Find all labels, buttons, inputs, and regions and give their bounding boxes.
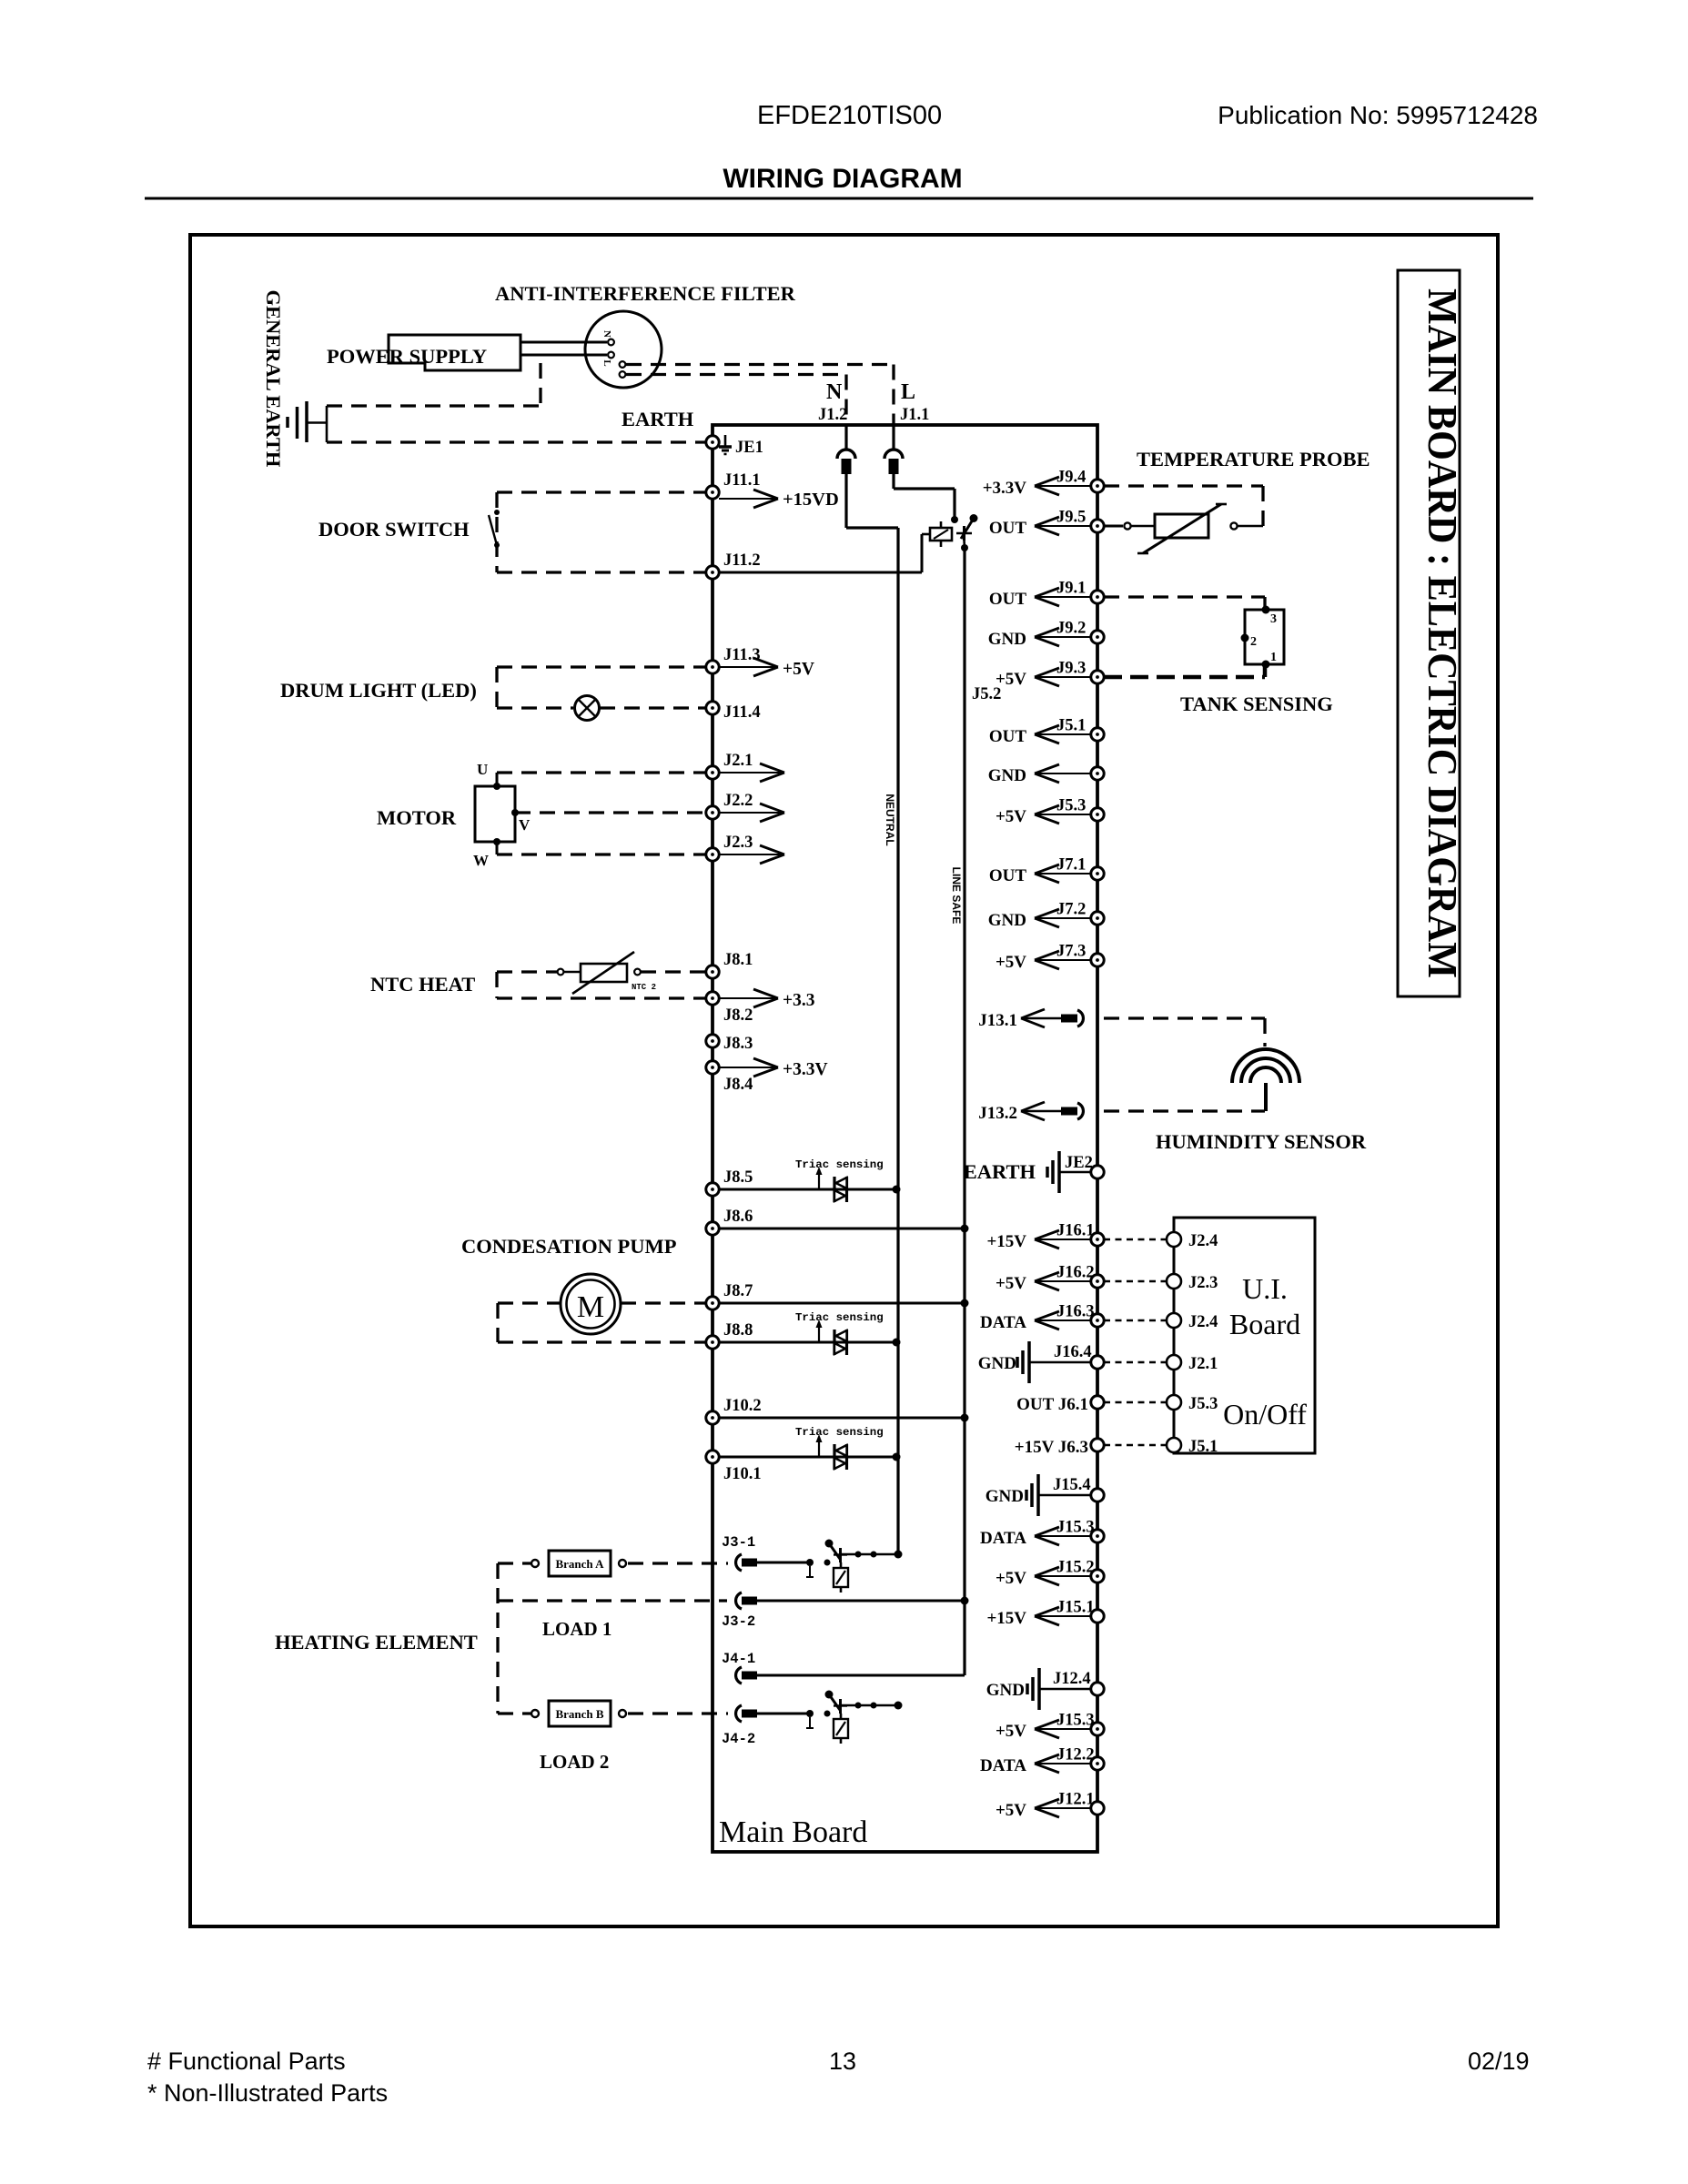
svg-text:OUT: OUT — [989, 519, 1027, 538]
svg-text:J11.4: J11.4 — [723, 703, 761, 722]
svg-text:02/19: 02/19 — [1468, 2047, 1530, 2075]
svg-text:WIRING DIAGRAM: WIRING DIAGRAM — [723, 164, 962, 194]
svg-text:LOAD 2: LOAD 2 — [540, 1751, 609, 1773]
svg-text:Publication No: 5995712428: Publication No: 5995712428 — [1218, 101, 1538, 129]
svg-text:CONDESATION PUMP: CONDESATION PUMP — [461, 1235, 677, 1258]
svg-text:OUT: OUT — [989, 590, 1027, 609]
svg-text:NTC 2: NTC 2 — [632, 983, 656, 992]
svg-text:LOAD 1: LOAD 1 — [542, 1618, 612, 1640]
svg-text:DATA: DATA — [980, 1756, 1026, 1775]
svg-text:ANTI-INTERFERENCE FILTER: ANTI-INTERFERENCE FILTER — [495, 282, 796, 305]
svg-text:J10.2: J10.2 — [723, 1397, 762, 1415]
svg-text:V: V — [519, 816, 531, 834]
svg-text:J12.4: J12.4 — [1053, 1670, 1091, 1688]
svg-text:M: M — [577, 1290, 604, 1324]
svg-text:Triac sensing: Triac sensing — [795, 1426, 884, 1439]
svg-text:J1.2: J1.2 — [818, 406, 847, 424]
svg-text:J11.3: J11.3 — [723, 646, 761, 664]
svg-text:J15.2: J15.2 — [1056, 1559, 1095, 1577]
svg-text:GND: GND — [986, 1681, 1025, 1700]
svg-text:DATA: DATA — [980, 1529, 1026, 1548]
svg-text:J9.5: J9.5 — [1056, 509, 1086, 527]
svg-text:JE2: JE2 — [1065, 1154, 1093, 1172]
svg-text:HEATING ELEMENT: HEATING ELEMENT — [275, 1631, 478, 1653]
svg-text:+5V: +5V — [996, 1274, 1026, 1293]
svg-text:+15VD: +15VD — [783, 490, 839, 510]
svg-text:J16.1: J16.1 — [1056, 1222, 1095, 1240]
svg-text:+5V: +5V — [783, 660, 814, 679]
svg-text:Branch A: Branch A — [555, 1557, 604, 1571]
svg-text:+3.3: +3.3 — [783, 991, 815, 1010]
svg-text:DOOR SWITCH: DOOR SWITCH — [318, 518, 470, 541]
svg-text:J2.4: J2.4 — [1188, 1232, 1218, 1250]
svg-text:J16.2: J16.2 — [1056, 1264, 1095, 1282]
svg-text:N: N — [826, 380, 843, 404]
svg-text:EARTH: EARTH — [964, 1160, 1036, 1183]
svg-text:J5.1: J5.1 — [1056, 717, 1086, 735]
svg-text:J2.1: J2.1 — [1188, 1355, 1218, 1373]
svg-text:J5.3: J5.3 — [1188, 1395, 1218, 1413]
svg-text:J5.1: J5.1 — [1188, 1438, 1218, 1456]
svg-text:W: W — [473, 852, 489, 869]
svg-text:# Functional Parts: # Functional Parts — [147, 2047, 346, 2075]
svg-text:EFDE210TIS00: EFDE210TIS00 — [757, 101, 942, 130]
svg-text:+15V J6.3: +15V J6.3 — [1015, 1438, 1088, 1457]
svg-text:GND: GND — [988, 766, 1026, 785]
svg-text:+5V: +5V — [996, 1722, 1026, 1741]
svg-text:J5.3: J5.3 — [1056, 797, 1086, 815]
svg-text:J15.3: J15.3 — [1056, 1519, 1095, 1537]
svg-text:U.I.: U.I. — [1242, 1272, 1288, 1305]
svg-text:DRUM LIGHT (LED): DRUM LIGHT (LED) — [280, 679, 477, 702]
svg-text:J1.1: J1.1 — [900, 406, 929, 424]
svg-text:L: L — [901, 380, 915, 404]
svg-text:MAIN BOARD : ELECTRIC DIAGRAM: MAIN BOARD : ELECTRIC DIAGRAM — [1420, 288, 1466, 978]
svg-text:L: L — [601, 359, 612, 366]
svg-text:NTC HEAT: NTC HEAT — [370, 973, 475, 996]
svg-text:J4-1: J4-1 — [722, 1651, 755, 1667]
svg-text:2: 2 — [1250, 635, 1257, 649]
svg-text:J2.1: J2.1 — [723, 752, 753, 770]
svg-text:J9.3: J9.3 — [1056, 660, 1086, 678]
svg-text:1: 1 — [1270, 651, 1277, 664]
svg-text:J2.4: J2.4 — [1188, 1313, 1218, 1331]
svg-text:+5V: +5V — [996, 807, 1026, 826]
svg-text:J16.3: J16.3 — [1056, 1303, 1095, 1321]
svg-text:J11.2: J11.2 — [723, 551, 761, 570]
svg-text:TANK SENSING: TANK SENSING — [1180, 693, 1333, 715]
svg-text:J4-2: J4-2 — [722, 1731, 755, 1747]
svg-text:MOTOR: MOTOR — [377, 806, 457, 829]
svg-text:J10.1: J10.1 — [723, 1465, 762, 1483]
svg-text:+15V: +15V — [986, 1609, 1026, 1628]
svg-text:OUT: OUT — [989, 727, 1027, 746]
svg-text:+15V: +15V — [986, 1232, 1026, 1251]
svg-text:GND: GND — [988, 911, 1026, 930]
svg-text:3: 3 — [1270, 612, 1277, 626]
svg-text:J2.3: J2.3 — [723, 834, 753, 852]
svg-text:+3.3V: +3.3V — [783, 1060, 828, 1079]
svg-text:J13.2: J13.2 — [978, 1104, 1017, 1123]
svg-text:J8.6: J8.6 — [723, 1208, 753, 1226]
svg-text:LINE SAFE: LINE SAFE — [950, 867, 963, 925]
svg-text:+3.3V: +3.3V — [983, 479, 1027, 498]
svg-text:J2.3: J2.3 — [1188, 1274, 1218, 1292]
svg-text:J7.2: J7.2 — [1056, 901, 1086, 919]
svg-text:J7.1: J7.1 — [1056, 856, 1086, 875]
svg-text:+5V: +5V — [996, 1801, 1026, 1820]
svg-text:OUT J6.1: OUT J6.1 — [1016, 1395, 1088, 1414]
svg-text:J9.4: J9.4 — [1056, 469, 1086, 487]
svg-text:J5.2: J5.2 — [972, 685, 1001, 703]
svg-text:J2.2: J2.2 — [723, 792, 753, 810]
svg-text:GENERAL EARTH: GENERAL EARTH — [262, 290, 285, 468]
svg-text:JE1: JE1 — [735, 439, 763, 457]
svg-text:J8.2: J8.2 — [723, 1006, 753, 1025]
svg-text:U: U — [477, 761, 488, 778]
svg-text:J15.1: J15.1 — [1056, 1599, 1095, 1617]
svg-text:J15.4: J15.4 — [1053, 1476, 1091, 1494]
svg-text:NEUTRAL: NEUTRAL — [884, 794, 896, 845]
svg-text:Main Board: Main Board — [719, 1815, 867, 1849]
svg-text:J7.3: J7.3 — [1056, 943, 1086, 961]
svg-text:+5V: +5V — [996, 953, 1026, 972]
svg-text:GND: GND — [988, 630, 1026, 649]
svg-text:OUT: OUT — [989, 866, 1027, 885]
svg-text:* Non-Illustrated Parts: * Non-Illustrated Parts — [147, 2079, 388, 2107]
svg-text:J8.8: J8.8 — [723, 1321, 753, 1340]
svg-text:J8.4: J8.4 — [723, 1076, 753, 1094]
svg-text:HUMINDITY SENSOR: HUMINDITY SENSOR — [1156, 1130, 1367, 1153]
svg-text:On/Off: On/Off — [1223, 1398, 1307, 1431]
svg-text:POWER SUPPLY: POWER SUPPLY — [327, 345, 487, 368]
svg-text:GND: GND — [978, 1354, 1016, 1373]
svg-text:J3-1: J3-1 — [722, 1534, 755, 1551]
svg-text:TEMPERATURE PROBE: TEMPERATURE PROBE — [1137, 448, 1370, 470]
svg-text:J8.5: J8.5 — [723, 1168, 753, 1187]
svg-text:J9.2: J9.2 — [1056, 620, 1086, 638]
svg-text:J3-2: J3-2 — [722, 1613, 755, 1630]
svg-text:J11.1: J11.1 — [723, 471, 761, 490]
svg-text:J12.1: J12.1 — [1056, 1791, 1095, 1809]
svg-text:J12.2: J12.2 — [1056, 1746, 1095, 1764]
svg-text:Board: Board — [1229, 1308, 1300, 1340]
svg-text:J16.4: J16.4 — [1054, 1343, 1092, 1361]
svg-text:Triac sensing: Triac sensing — [795, 1311, 884, 1324]
svg-text:DATA: DATA — [980, 1313, 1026, 1332]
svg-text:J15.3: J15.3 — [1056, 1712, 1095, 1730]
svg-text:J13.1: J13.1 — [978, 1011, 1017, 1030]
svg-text:13: 13 — [829, 2047, 856, 2075]
svg-text:+5V: +5V — [996, 1569, 1026, 1588]
svg-text:Branch B: Branch B — [555, 1707, 603, 1721]
svg-text:J9.1: J9.1 — [1056, 580, 1086, 598]
svg-text:Triac sensing: Triac sensing — [795, 1158, 884, 1171]
svg-text:J8.7: J8.7 — [723, 1282, 753, 1300]
svg-text:J8.1: J8.1 — [723, 951, 753, 969]
svg-text:N: N — [601, 330, 612, 338]
svg-text:GND: GND — [986, 1487, 1024, 1506]
svg-text:EARTH: EARTH — [622, 408, 694, 430]
svg-text:J8.3: J8.3 — [723, 1035, 753, 1053]
